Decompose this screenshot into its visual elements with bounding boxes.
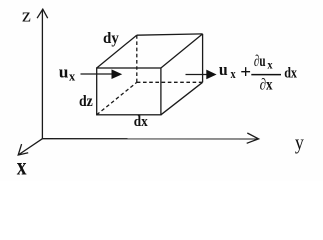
svg-text:∂x: ∂x	[260, 77, 273, 94]
svg-text:x: x	[231, 67, 237, 81]
svg-text:x: x	[17, 154, 27, 181]
svg-text:x: x	[267, 58, 272, 72]
fraction bar	[251, 74, 281, 76]
z axis	[41, 10, 43, 139]
svg-text:+: +	[240, 62, 251, 83]
hidden bottom-left receding edge (dashed)	[97, 82, 137, 115]
svg-text:y: y	[295, 132, 304, 154]
y axis	[42, 138, 258, 140]
y axis arrowhead	[247, 133, 259, 143]
cube front face	[97, 68, 161, 115]
inflow arrowhead (filled)	[112, 69, 123, 79]
x axis arrowhead	[18, 144, 28, 155]
svg-text:∂u: ∂u	[254, 53, 266, 70]
svg-text:u: u	[59, 63, 69, 82]
z axis arrowhead	[37, 9, 48, 18]
cube bottom-right receding edge	[161, 82, 203, 115]
x axis	[18, 139, 42, 155]
svg-text:dz: dz	[79, 93, 93, 110]
hidden back bottom edge (dashed)	[137, 81, 203, 83]
cube back right vertical edge	[202, 34, 204, 82]
svg-text:dx: dx	[134, 114, 148, 130]
svg-text:dy: dy	[103, 30, 119, 47]
svg-text:u: u	[219, 60, 228, 79]
cube top-left receding edge	[97, 35, 137, 68]
hidden back-left vertical edge (dashed)	[136, 35, 138, 82]
cube top-right receding edge	[161, 34, 203, 68]
cube back top edge	[137, 34, 203, 35]
svg-text:z: z	[22, 6, 31, 27]
inflow velocity arrow shaft	[81, 73, 113, 75]
outflow arrowhead (filled)	[206, 70, 216, 80]
svg-text:x: x	[69, 69, 76, 84]
svg-text:dx: dx	[284, 65, 297, 81]
outflow velocity arrow shaft	[186, 74, 208, 76]
